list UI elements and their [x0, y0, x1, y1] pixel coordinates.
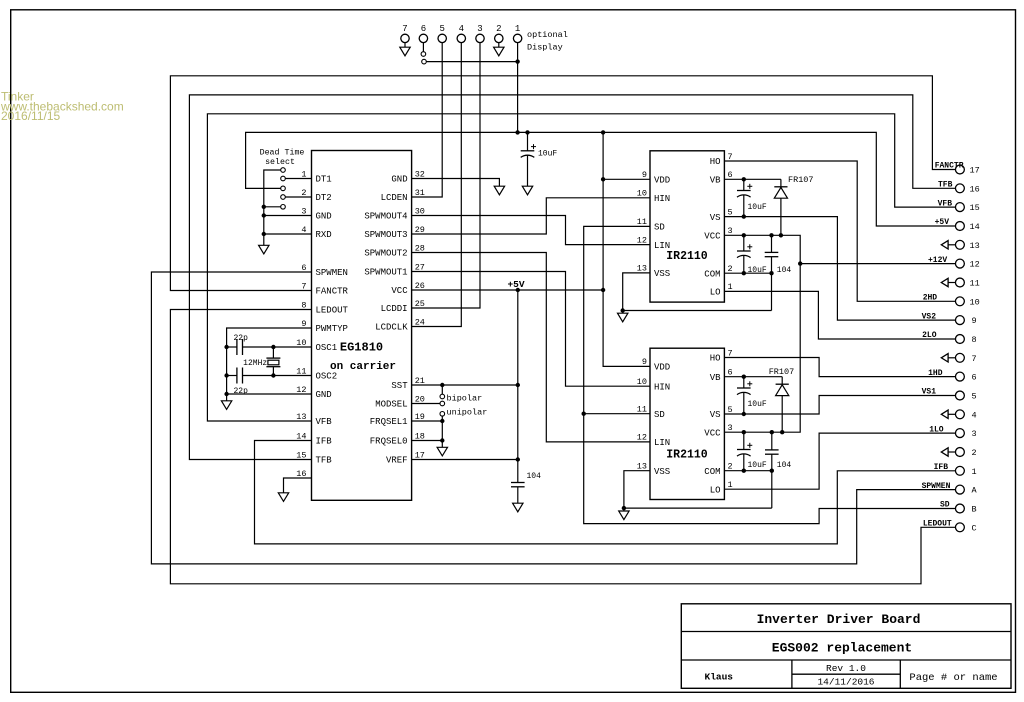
svg-text:2: 2	[728, 264, 733, 274]
svg-text:VS: VS	[710, 213, 721, 223]
svg-text:VCC: VCC	[704, 428, 721, 438]
svg-text:7: 7	[972, 354, 977, 364]
svg-text:LIN: LIN	[654, 241, 670, 251]
svg-text:104: 104	[777, 461, 792, 470]
svg-text:GND: GND	[316, 390, 332, 400]
svg-text:RXD: RXD	[316, 230, 332, 240]
svg-text:VCC: VCC	[391, 286, 408, 296]
svg-text:9: 9	[972, 316, 977, 326]
svg-text:optional: optional	[527, 30, 568, 40]
svg-text:6: 6	[421, 24, 426, 34]
svg-text:bipolar: bipolar	[447, 393, 483, 403]
svg-text:13: 13	[637, 462, 647, 472]
svg-text:11: 11	[970, 279, 980, 289]
svg-text:Dead Time: Dead Time	[260, 148, 305, 158]
svg-text:+5V: +5V	[507, 279, 524, 290]
svg-text:VB: VB	[710, 373, 721, 383]
svg-text:1: 1	[728, 282, 733, 292]
svg-text:VFB: VFB	[316, 417, 333, 427]
svg-text:10uF: 10uF	[748, 461, 767, 470]
svg-text:4: 4	[972, 410, 977, 420]
svg-text:10uF: 10uF	[748, 400, 767, 409]
svg-text:22p: 22p	[234, 387, 249, 396]
svg-text:SPWMOUT3: SPWMOUT3	[364, 230, 407, 240]
svg-text:10: 10	[637, 189, 647, 199]
svg-text:12MHz: 12MHz	[243, 359, 267, 368]
svg-text:8: 8	[972, 335, 977, 345]
svg-text:GND: GND	[391, 175, 407, 185]
svg-text:IR2110: IR2110	[666, 250, 708, 263]
svg-text:1: 1	[515, 24, 520, 34]
svg-text:5: 5	[728, 207, 733, 217]
svg-text:OSC1: OSC1	[316, 343, 338, 353]
svg-text:HIN: HIN	[654, 194, 670, 204]
svg-text:VREF: VREF	[386, 456, 408, 466]
svg-text:DT1: DT1	[316, 175, 332, 185]
svg-text:5: 5	[972, 392, 977, 402]
svg-text:LO: LO	[710, 485, 721, 495]
svg-text:13: 13	[970, 241, 980, 251]
svg-text:22p: 22p	[234, 334, 249, 343]
svg-text:VB: VB	[710, 176, 721, 186]
svg-text:12: 12	[970, 260, 980, 270]
svg-text:3: 3	[728, 423, 733, 433]
svg-text:3: 3	[972, 429, 977, 439]
svg-text:17: 17	[970, 166, 980, 176]
svg-text:HIN: HIN	[654, 382, 670, 392]
svg-text:SPWMOUT4: SPWMOUT4	[364, 212, 407, 222]
svg-text:12: 12	[637, 235, 647, 245]
svg-text:104: 104	[527, 472, 542, 481]
svg-text:1: 1	[728, 480, 733, 490]
svg-text:104: 104	[777, 266, 792, 275]
svg-text:VDD: VDD	[654, 363, 670, 373]
svg-text:10: 10	[970, 297, 980, 307]
svg-text:4: 4	[459, 24, 464, 34]
svg-text:2: 2	[728, 462, 733, 472]
svg-text:unipolar: unipolar	[447, 408, 488, 418]
svg-text:11: 11	[637, 405, 647, 415]
svg-text:16: 16	[970, 184, 980, 194]
svg-text:9: 9	[642, 170, 647, 180]
svg-text:VDD: VDD	[654, 176, 670, 186]
svg-text:1: 1	[972, 467, 977, 477]
svg-text:14/11/2016: 14/11/2016	[817, 677, 874, 688]
svg-text:VSS: VSS	[654, 269, 670, 279]
svg-text:PWMTYP: PWMTYP	[316, 324, 348, 334]
svg-text:6: 6	[728, 368, 733, 378]
svg-text:LCDCLK: LCDCLK	[375, 323, 408, 333]
svg-text:FANCTR: FANCTR	[316, 287, 349, 297]
svg-text:SPWMEN: SPWMEN	[316, 268, 348, 278]
svg-text:9: 9	[642, 357, 647, 367]
svg-text:DT2: DT2	[316, 193, 332, 203]
svg-text:HO: HO	[710, 157, 721, 167]
svg-text:LEDOUT: LEDOUT	[316, 306, 349, 316]
svg-text:SST: SST	[391, 381, 408, 391]
svg-text:SD: SD	[654, 410, 665, 420]
svg-text:FR107: FR107	[788, 175, 814, 185]
svg-text:10uF: 10uF	[538, 149, 557, 158]
svg-text:EGS002 replacement: EGS002 replacement	[772, 641, 912, 656]
svg-text:6: 6	[728, 170, 733, 180]
svg-text:FRQSEL0: FRQSEL0	[370, 437, 408, 447]
svg-text:IR2110: IR2110	[666, 449, 708, 462]
svg-text:B: B	[972, 505, 977, 515]
svg-text:SPWMOUT1: SPWMOUT1	[364, 268, 407, 278]
svg-text:VS: VS	[710, 410, 721, 420]
svg-text:HO: HO	[710, 354, 721, 364]
svg-text:14: 14	[970, 222, 980, 232]
svg-text:FR107: FR107	[769, 367, 795, 377]
svg-text:LIN: LIN	[654, 438, 670, 448]
svg-text:on carrier: on carrier	[330, 361, 396, 373]
svg-text:LCDDI: LCDDI	[381, 304, 408, 314]
svg-text:COM: COM	[704, 467, 720, 477]
svg-text:Page # or name: Page # or name	[909, 672, 997, 684]
svg-text:C: C	[972, 523, 977, 533]
svg-text:MODSEL: MODSEL	[375, 400, 407, 410]
svg-text:10: 10	[637, 377, 647, 387]
svg-text:6: 6	[972, 373, 977, 383]
svg-text:SD: SD	[654, 223, 665, 233]
svg-text:IFB: IFB	[316, 437, 333, 447]
svg-text:VSS: VSS	[654, 467, 670, 477]
svg-text:13: 13	[637, 264, 647, 274]
svg-text:FRQSEL1: FRQSEL1	[370, 417, 408, 427]
svg-text:LO: LO	[710, 288, 721, 298]
svg-text:11: 11	[637, 217, 647, 227]
svg-text:VCC: VCC	[704, 232, 721, 242]
svg-text:Klaus: Klaus	[705, 671, 734, 682]
svg-text:OSC2: OSC2	[316, 372, 338, 382]
svg-text:select: select	[265, 157, 295, 167]
svg-text:7: 7	[728, 152, 733, 162]
svg-text:3: 3	[728, 226, 733, 236]
svg-text:2: 2	[496, 24, 501, 34]
svg-text:SPWMOUT2: SPWMOUT2	[364, 249, 407, 259]
svg-text:15: 15	[970, 203, 980, 213]
svg-text:Display: Display	[527, 43, 563, 53]
svg-text:GND: GND	[316, 212, 332, 222]
svg-text:COM: COM	[704, 269, 720, 279]
svg-text:3: 3	[477, 24, 482, 34]
svg-text:5: 5	[439, 24, 444, 34]
svg-text:2: 2	[972, 448, 977, 458]
svg-text:2016/11/15: 2016/11/15	[1, 109, 60, 123]
svg-text:Inverter Driver Board: Inverter Driver Board	[757, 612, 921, 627]
svg-text:EG1810: EG1810	[340, 341, 383, 355]
svg-text:7: 7	[402, 24, 407, 34]
svg-text:10uF: 10uF	[748, 203, 767, 212]
svg-text:A: A	[972, 486, 978, 496]
svg-text:12: 12	[637, 433, 647, 443]
svg-text:TFB: TFB	[316, 456, 333, 466]
svg-text:LCDEN: LCDEN	[381, 193, 408, 203]
svg-text:Rev 1.0: Rev 1.0	[826, 663, 866, 674]
svg-text:5: 5	[728, 405, 733, 415]
svg-text:7: 7	[728, 348, 733, 358]
